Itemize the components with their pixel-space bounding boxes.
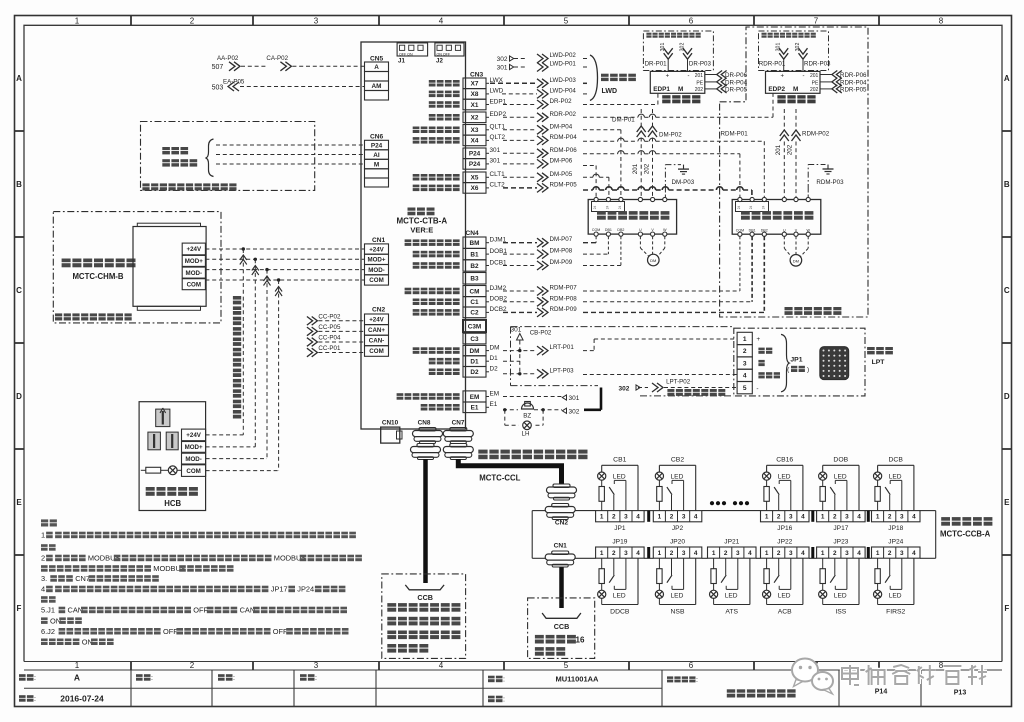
wire QLT2 row X4 to RDM-P04 to rear door pin3 <box>503 139 537 141</box>
svg-text:CB2: CB2 <box>671 457 684 464</box>
svg-text:4: 4 <box>694 550 698 557</box>
rear door machine control system box <box>732 200 821 235</box>
svg-text:DR-P06: DR-P06 <box>725 72 748 79</box>
arrival bell dash-dot box <box>734 328 865 396</box>
wire D2 row to LPT-P03 to bell pin4 <box>503 373 537 375</box>
svg-text:RDM-P01: RDM-P01 <box>721 131 749 138</box>
svg-text:PE: PE <box>696 80 703 86</box>
wire DOB1 row B1 to DM-P08 to front DB1 <box>503 253 537 255</box>
svg-text:COM: COM <box>736 228 744 232</box>
command unit DDCB <box>596 547 645 558</box>
wires CHM to CN1 with junction dots <box>205 248 364 250</box>
svg-text:DR-P03: DR-P03 <box>689 60 712 67</box>
svg-text:301: 301 <box>569 395 580 402</box>
svg-text:M: M <box>793 86 798 93</box>
svg-text:2: 2 <box>743 348 747 355</box>
svg-text:1: 1 <box>75 661 80 670</box>
svg-text::: : <box>696 677 698 684</box>
rear door optional enclosure label <box>785 307 793 310</box>
svg-text:CN4: CN4 <box>466 230 480 237</box>
svg-text:ATS: ATS <box>725 608 738 615</box>
wires 201 202 rear door power columns <box>783 109 785 130</box>
svg-text:2: 2 <box>888 514 892 521</box>
svg-text:COM: COM <box>369 277 383 284</box>
svg-text:CB-P02: CB-P02 <box>530 329 552 336</box>
svg-text:JP17: JP17 <box>833 525 848 532</box>
board name label <box>408 208 416 211</box>
svg-text:202: 202 <box>810 87 819 93</box>
svg-text:202: 202 <box>695 87 704 93</box>
chevrons RDR-P06 RDR-P04 RDR-P05 <box>832 71 842 79</box>
svg-text:COM: COM <box>369 348 383 355</box>
svg-text:201: 201 <box>775 144 782 155</box>
svg-text::: : <box>315 675 317 682</box>
svg-text:CM: CM <box>470 288 480 295</box>
svg-text:C1: C1 <box>470 299 479 306</box>
svg-text:LED: LED <box>725 592 738 599</box>
net 302 thick wire to LPT-P02 bell pin5 <box>584 408 601 411</box>
svg-text:3: 3 <box>624 550 628 557</box>
svg-text:MOD-: MOD- <box>185 456 202 463</box>
svg-text:2: 2 <box>190 661 195 670</box>
svg-text:JP22: JP22 <box>777 539 792 546</box>
svg-text:LWD-P02: LWD-P02 <box>550 52 577 59</box>
svg-text:DM: DM <box>650 258 656 263</box>
command unit ACB <box>761 547 810 558</box>
svg-text:B: B <box>1004 180 1010 189</box>
svg-text:X1: X1 <box>471 102 479 109</box>
svg-text:RDR-P01: RDR-P01 <box>759 60 786 67</box>
svg-text:CN2: CN2 <box>372 307 386 314</box>
svg-text:DM-P04: DM-P04 <box>550 123 573 130</box>
svg-text:DM-P07: DM-P07 <box>550 236 573 243</box>
svg-text:C3: C3 <box>470 336 479 343</box>
svg-text:3: 3 <box>789 514 793 521</box>
svg-text:DM: DM <box>490 344 500 351</box>
svg-text:4: 4 <box>748 550 752 557</box>
svg-text:P24: P24 <box>469 161 481 168</box>
svg-text:+24V: +24V <box>186 432 201 439</box>
svg-text:24: 24 <box>605 206 609 210</box>
door1 curtain label <box>662 95 670 98</box>
svg-text:EDP1: EDP1 <box>653 86 670 93</box>
svg-text:4: 4 <box>857 550 861 557</box>
svg-text:1: 1 <box>821 514 825 521</box>
wire CLT2 row X6 to RDM-P05 to rear door pin2 thick <box>503 187 537 189</box>
svg-text:AI: AI <box>373 152 380 159</box>
svg-text:302: 302 <box>497 56 508 63</box>
door2 light curtain EDP2 box <box>766 71 821 93</box>
door2 curtain box label <box>762 33 767 35</box>
svg-text:1: 1 <box>658 514 662 521</box>
svg-text:JP20: JP20 <box>670 539 685 546</box>
board CN4 chinese row labels <box>405 239 412 242</box>
svg-text:1: 1 <box>765 550 769 557</box>
svg-text:CAN: CAN <box>240 606 256 615</box>
weighing device group label <box>601 74 609 77</box>
svg-text:CC-P05: CC-P05 <box>318 324 341 331</box>
svg-text:16: 16 <box>576 636 585 645</box>
command board top bus <box>532 510 546 512</box>
svg-text:4: 4 <box>857 514 861 521</box>
svg-text:RDR-P02: RDR-P02 <box>550 111 577 118</box>
svg-text:2: 2 <box>612 550 616 557</box>
title block version label <box>19 674 26 677</box>
notes text block <box>41 519 48 522</box>
cascade CCB dash-dot box <box>528 598 595 659</box>
wires HCB to drop wires <box>206 434 244 436</box>
svg-text:CN3: CN3 <box>470 72 484 79</box>
bell wiring note label <box>667 389 674 392</box>
svg-text:DM-P09: DM-P09 <box>550 259 573 266</box>
svg-text:CN1: CN1 <box>554 543 568 550</box>
front door motor wires <box>639 236 641 248</box>
svg-text:MOD+: MOD+ <box>185 444 203 451</box>
ellipsis dots <box>710 501 749 505</box>
HCB terminal stack <box>182 429 206 441</box>
lamp LH loop <box>504 410 506 426</box>
HCB LED <box>168 466 177 475</box>
svg-text:3: 3 <box>845 550 849 557</box>
wire DJM1 row BM to DM-P07 to front COM <box>503 242 537 244</box>
frame bottom band line <box>24 661 1002 663</box>
wires analog weighing to CN6 <box>216 144 365 146</box>
door2 curtain 24V wiring dashed box <box>759 31 829 71</box>
svg-text:8: 8 <box>939 661 944 670</box>
svg-text:CAN: CAN <box>68 606 84 615</box>
vertical drop wires to HCB <box>242 249 244 435</box>
svg-text:HCB: HCB <box>164 499 181 508</box>
dual-door CCB note text <box>387 603 396 607</box>
svg-text:4: 4 <box>41 585 45 594</box>
frame row ticks <box>15 130 25 132</box>
svg-text:P24: P24 <box>371 142 383 149</box>
svg-text:E: E <box>16 498 22 507</box>
svg-text:AA-P02: AA-P02 <box>217 55 239 62</box>
wire LWD-P02 row <box>537 54 548 63</box>
svg-text:CB16: CB16 <box>776 457 793 464</box>
svg-text:201: 201 <box>695 73 704 79</box>
svg-text:202: 202 <box>644 163 651 174</box>
svg-text:503: 503 <box>212 84 224 91</box>
svg-text:JP17: JP17 <box>271 585 288 594</box>
svg-text:1: 1 <box>712 550 716 557</box>
analog weighing note label <box>142 183 149 186</box>
voice announcer note label <box>55 313 62 316</box>
svg-text:F: F <box>17 604 22 613</box>
svg-text:3: 3 <box>845 514 849 521</box>
title block drawing-name label <box>667 676 673 679</box>
svg-text:3: 3 <box>743 360 747 367</box>
svg-text:RDM-P06: RDM-P06 <box>550 147 578 154</box>
svg-text:DDCB: DDCB <box>610 608 630 615</box>
wire LWD row X8 to LWD-P04 <box>502 93 537 95</box>
svg-text:3: 3 <box>682 550 686 557</box>
svg-text:2: 2 <box>833 550 837 557</box>
svg-text:COM: COM <box>186 468 200 475</box>
svg-text:D2: D2 <box>470 369 479 376</box>
svg-text:OFF: OFF <box>193 606 208 615</box>
svg-text:1: 1 <box>821 550 825 557</box>
svg-text:U: U <box>639 228 642 232</box>
svg-text:RDM-P03: RDM-P03 <box>816 179 844 186</box>
svg-text:RDM-P04: RDM-P04 <box>550 134 578 141</box>
svg-text:E1: E1 <box>490 401 498 408</box>
svg-text:LPT-P03: LPT-P03 <box>550 367 575 374</box>
analog load weighing device dashed box <box>141 122 315 191</box>
voice announcer terminal stack <box>182 243 205 255</box>
svg-text:CN8: CN8 <box>418 420 431 427</box>
svg-text:RDM-P08: RDM-P08 <box>550 295 578 302</box>
cable CN8 to CCB thick <box>423 459 428 583</box>
DIP switch J2 <box>435 43 464 56</box>
command unit DCB <box>872 511 921 522</box>
command unit ATS <box>708 547 757 558</box>
svg-text:CN6: CN6 <box>370 134 384 141</box>
svg-text:U: U <box>783 228 786 232</box>
door2 curtain label <box>777 95 785 98</box>
svg-text:CA-P02: CA-P02 <box>266 55 288 62</box>
svg-text:RDR-P06: RDR-P06 <box>840 72 867 79</box>
wire QLT1 row X3 to DM-P04 to front door pin3 <box>503 129 537 131</box>
bell enclosure dash-dot left part <box>511 326 734 328</box>
front door motor DM <box>648 254 660 266</box>
svg-text:LED: LED <box>778 474 791 481</box>
svg-text:CAN-: CAN- <box>369 338 384 345</box>
svg-text:24: 24 <box>749 206 753 210</box>
svg-text:C: C <box>1004 286 1010 295</box>
svg-text::: : <box>503 697 505 704</box>
cascade CCB note text <box>535 635 544 639</box>
wire DM row to LRT-P01 to bell pin1 <box>503 350 537 352</box>
bus junction bars <box>647 511 650 522</box>
svg-text:RDM-P09: RDM-P09 <box>550 306 578 313</box>
wire CLT1 row X5 to DM-P05 to front door pin2 <box>503 176 537 178</box>
svg-text:DM-P01: DM-P01 <box>612 117 635 124</box>
svg-text:OFF: OFF <box>163 627 178 636</box>
command unit NSB <box>653 547 702 558</box>
svg-text:JP21: JP21 <box>724 539 739 546</box>
svg-text:5: 5 <box>743 385 747 392</box>
svg-text:4: 4 <box>912 550 916 557</box>
title block checked label <box>218 674 225 677</box>
svg-text:B1: B1 <box>470 251 479 258</box>
svg-text:DB2: DB2 <box>617 228 624 232</box>
svg-text:DCB: DCB <box>889 457 904 464</box>
svg-text:EA-P05: EA-P05 <box>223 78 245 85</box>
svg-text:-: - <box>756 385 758 392</box>
svg-text:3: 3 <box>900 550 904 557</box>
svg-text:1: 1 <box>876 550 880 557</box>
wire LWD-P01 row <box>537 63 548 72</box>
svg-text:X8: X8 <box>471 91 479 98</box>
bell speaker grille <box>820 347 849 380</box>
svg-text:LED: LED <box>834 592 847 599</box>
svg-text:MOD-: MOD- <box>368 267 385 274</box>
svg-text:RDM-P07: RDM-P07 <box>550 285 578 292</box>
svg-text:LED: LED <box>671 592 684 599</box>
board CN3 chinese row labels <box>429 80 436 83</box>
svg-text:301: 301 <box>497 65 508 72</box>
vertical cable label car-top to car display <box>233 296 241 300</box>
svg-text:5: 5 <box>564 661 569 670</box>
svg-text:DM-P06: DM-P06 <box>550 157 573 164</box>
rear door PE ground RDM-P03 <box>807 190 809 198</box>
svg-text:5: 5 <box>564 16 569 25</box>
voice announcer label <box>62 259 71 263</box>
svg-text:MCTC-CCB-A: MCTC-CCB-A <box>940 530 991 539</box>
wire EM row to net 301 <box>503 396 562 398</box>
svg-text:P24: P24 <box>469 151 481 158</box>
command unit ISS <box>817 547 866 558</box>
car-top board U1 MCTC-CTB-A outline <box>361 42 466 429</box>
title block drawing title <box>727 689 735 692</box>
svg-text:M: M <box>678 86 683 93</box>
svg-text:NSB: NSB <box>671 608 685 615</box>
svg-text:DM-P02: DM-P02 <box>659 132 682 139</box>
svg-text:B2: B2 <box>470 263 479 270</box>
svg-text:LH: LH <box>522 431 530 438</box>
svg-text:MU11001AA: MU11001AA <box>556 675 600 684</box>
svg-text:1: 1 <box>75 16 80 25</box>
wire 301 row P24 to RDM-P06 to rear door pin1 <box>503 152 537 154</box>
svg-text:6: 6 <box>689 16 694 25</box>
cable marks on drop wires <box>240 255 247 265</box>
wire DJM2 row CM to RDM-P07 to rear COM <box>503 290 537 292</box>
svg-text:24: 24 <box>761 206 765 210</box>
svg-text:CC-P02: CC-P02 <box>318 313 341 320</box>
svg-text:CN5: CN5 <box>370 55 384 62</box>
svg-text:RDR-P04: RDR-P04 <box>840 79 867 86</box>
command unit CB1 <box>596 511 645 522</box>
svg-text::: : <box>151 675 153 682</box>
svg-text:5.J1: 5.J1 <box>41 606 55 615</box>
svg-text:CC-P01: CC-P01 <box>318 345 341 352</box>
svg-text:3.: 3. <box>41 574 47 583</box>
svg-text:2: 2 <box>724 550 728 557</box>
analog weighing brace <box>206 139 214 177</box>
svg-text:LED: LED <box>613 474 626 481</box>
watermark wechat icon <box>792 659 833 695</box>
svg-text:D: D <box>16 392 22 401</box>
HCB digit display 3 <box>166 432 178 450</box>
svg-text:ISS: ISS <box>835 608 846 615</box>
svg-text:D: D <box>1004 392 1010 401</box>
svg-text:JP24: JP24 <box>297 585 314 594</box>
svg-text:X3: X3 <box>471 127 479 134</box>
svg-text:P13: P13 <box>954 690 967 697</box>
svg-text:ACB: ACB <box>778 608 792 615</box>
HCB digit display 2 <box>148 432 161 450</box>
svg-text:X5: X5 <box>471 175 479 182</box>
svg-text:M: M <box>374 161 379 168</box>
svg-text:LED: LED <box>778 592 791 599</box>
HCB resistor <box>141 469 146 471</box>
svg-text:MOD+: MOD+ <box>185 258 203 265</box>
command board name label <box>941 517 950 521</box>
cable CN7 to MCTC-CCL thick <box>458 459 561 484</box>
svg-text:4: 4 <box>801 550 805 557</box>
svg-text:A: A <box>374 64 379 71</box>
arrival bell label <box>867 347 875 350</box>
frame column ticks top <box>130 16 132 26</box>
weighing device group brace <box>590 55 598 101</box>
rear door optional dash-dot enclosure <box>720 27 868 317</box>
door1 curtain box label <box>646 33 651 35</box>
svg-text::: : <box>34 675 36 682</box>
svg-text:DR-P05: DR-P05 <box>725 86 748 93</box>
svg-text:LWD: LWD <box>490 88 504 95</box>
svg-text:E: E <box>1004 498 1010 507</box>
svg-text:302: 302 <box>619 385 630 392</box>
front door machine control system box <box>588 200 676 235</box>
svg-text:LED: LED <box>889 592 902 599</box>
svg-text:J2: J2 <box>436 57 443 64</box>
voice announcer device box <box>133 227 206 307</box>
command unit DOB <box>817 511 866 522</box>
wire DCB1 row B2 to DM-P09 to front DB2 <box>503 265 537 267</box>
front door label <box>597 211 606 215</box>
svg-text:MCTC-CTB-A: MCTC-CTB-A <box>396 217 447 226</box>
svg-text:W: W <box>806 228 810 232</box>
svg-text:CAN+: CAN+ <box>368 327 385 334</box>
svg-text:4: 4 <box>439 16 444 25</box>
svg-text:X6: X6 <box>471 185 479 192</box>
command board left bus vertical <box>531 511 533 559</box>
svg-text:CLT1: CLT1 <box>490 171 506 178</box>
svg-text:DB2: DB2 <box>761 228 768 232</box>
svg-text:507: 507 <box>212 64 224 71</box>
svg-text:CLT2: CLT2 <box>490 182 506 189</box>
svg-text:24: 24 <box>737 206 741 210</box>
svg-text:CN7: CN7 <box>452 420 465 427</box>
svg-text:2: 2 <box>888 550 892 557</box>
svg-text:4: 4 <box>694 514 698 521</box>
svg-text:B3: B3 <box>470 276 479 283</box>
svg-text:LWD-P01: LWD-P01 <box>550 61 577 68</box>
svg-text:RDM-P05: RDM-P05 <box>550 181 578 188</box>
svg-text:4: 4 <box>743 373 747 380</box>
chevrons DR-P06 DR-P04 DR-P05 <box>717 71 727 79</box>
DIP switch J1 <box>397 43 428 56</box>
HCB label <box>146 487 155 491</box>
buzzer BZ <box>522 403 534 409</box>
svg-text:EM: EM <box>470 394 480 401</box>
svg-text:JP24: JP24 <box>888 539 903 546</box>
svg-text:EM: EM <box>490 390 500 397</box>
command unit FIRS2 <box>872 547 921 558</box>
wires CC-P0x to CN2 <box>307 317 318 326</box>
rear door label <box>741 211 750 215</box>
svg-text:-: - <box>688 74 690 80</box>
svg-text:PE: PE <box>812 80 819 86</box>
connector CN2 of command board <box>552 504 569 507</box>
svg-text:6: 6 <box>689 661 694 670</box>
svg-text:DR-P02: DR-P02 <box>550 98 573 105</box>
svg-text:2: 2 <box>670 514 674 521</box>
svg-text:1: 1 <box>41 531 45 540</box>
svg-text:1: 1 <box>765 514 769 521</box>
svg-text:E1: E1 <box>471 405 479 412</box>
svg-text:RDM-P02: RDM-P02 <box>802 131 830 138</box>
wire E1 row with buzzer BZ <box>503 409 518 411</box>
overload indicator HCB box <box>139 402 206 511</box>
svg-text:D1: D1 <box>490 355 499 362</box>
wire LWX row X7 to LWD-P03 <box>490 82 537 84</box>
svg-text:3: 3 <box>736 550 740 557</box>
svg-text:MCTC-CHM-B: MCTC-CHM-B <box>72 272 123 281</box>
svg-text:COM: COM <box>187 281 201 288</box>
